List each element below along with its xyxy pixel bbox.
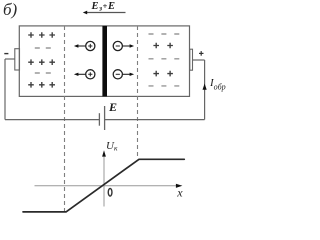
n-region plus charges xyxy=(153,43,173,77)
battery E positive plate (long) xyxy=(104,106,106,130)
svg-text:б): б) xyxy=(3,0,18,19)
wire bottom left xyxy=(5,119,99,121)
depletion boundary right (dashed) xyxy=(137,26,139,159)
right electrode xyxy=(190,49,193,70)
wire right vertical xyxy=(204,60,206,120)
n-region minus charges xyxy=(149,34,180,86)
p-n junction bar xyxy=(102,26,107,97)
graph x axis xyxy=(35,185,178,187)
battery E negative plate (short) xyxy=(98,113,100,126)
negative ion 2 with arrow right xyxy=(113,70,134,79)
p-region minus charges xyxy=(35,48,51,73)
label plus (right terminal) xyxy=(199,51,204,56)
arrow Eз+E (field direction, pointing left) xyxy=(83,11,126,15)
semiconductor body rectangle xyxy=(19,26,189,97)
label 0 xyxy=(108,189,112,197)
p-region plus charges xyxy=(28,32,55,87)
wire right stub xyxy=(193,59,205,61)
graph U axis xyxy=(103,156,105,207)
wire bottom right xyxy=(105,119,205,121)
positive ion 2 with arrow left xyxy=(74,70,95,79)
label minus (left terminal) xyxy=(4,53,8,55)
negative ion 1 with arrow right xyxy=(113,41,134,50)
left electrode xyxy=(15,49,20,70)
wire left stub xyxy=(5,58,15,60)
depletion boundary left (dashed) xyxy=(64,26,66,211)
wire left vertical xyxy=(4,59,6,120)
svg-text:x: x xyxy=(176,185,183,199)
current arrow Iобр (up) xyxy=(203,84,207,90)
potential curve Uк(x) xyxy=(23,159,184,212)
svg-text:Eз+E: Eз+E xyxy=(91,1,116,13)
positive ion 1 with arrow left xyxy=(74,41,95,50)
svg-text:E: E xyxy=(108,100,117,114)
